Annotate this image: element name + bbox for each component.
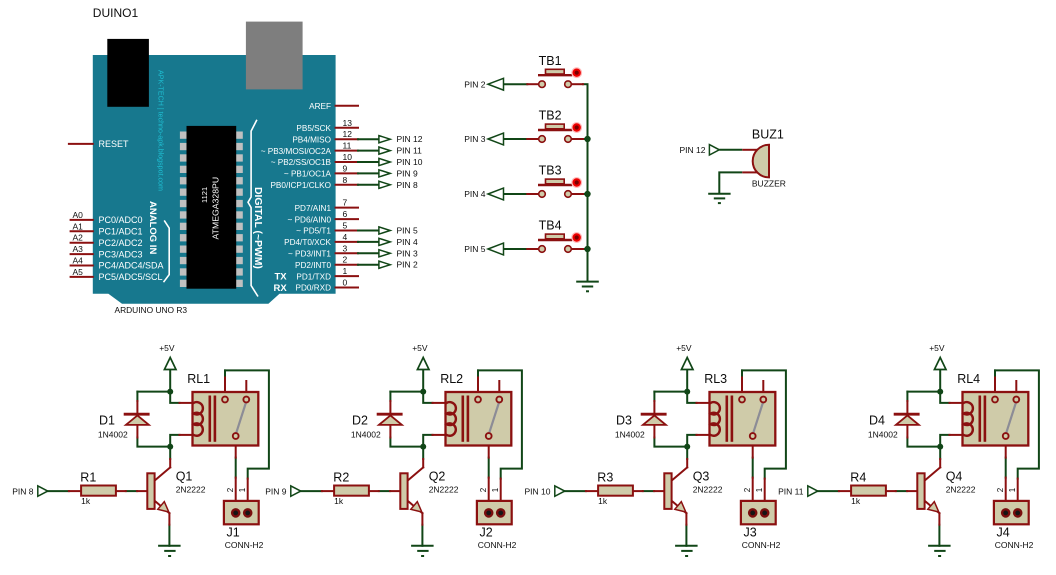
svg-text:+5V: +5V [929,343,945,353]
svg-text:+5V: +5V [676,343,692,353]
svg-text:PIN 12: PIN 12 [680,145,706,155]
svg-text:PC1/ADC1: PC1/ADC1 [99,227,143,237]
svg-text:~ PB3/MOSI/OC2A: ~ PB3/MOSI/OC2A [261,147,332,156]
svg-text:TB1: TB1 [539,54,562,68]
svg-text:Q1: Q1 [176,470,193,484]
svg-text:PC4/ADC4/SDA: PC4/ADC4/SDA [99,261,164,271]
svg-text:ARDUINO UNO R3: ARDUINO UNO R3 [115,305,188,315]
svg-text:RL4: RL4 [957,372,980,386]
svg-text:PIN 5: PIN 5 [397,226,419,236]
svg-text:CONN-H2: CONN-H2 [225,540,264,550]
svg-text:RESET: RESET [99,139,130,149]
svg-text:1k: 1k [851,496,861,506]
svg-text:PD7/AIN1: PD7/AIN1 [295,204,332,213]
svg-text:2N2222: 2N2222 [176,484,206,494]
svg-text:A3: A3 [73,244,84,254]
svg-text:Q2: Q2 [429,470,446,484]
svg-text:0: 0 [343,278,348,288]
svg-text:PC0/ADC0: PC0/ADC0 [99,215,143,225]
svg-text:R3: R3 [597,471,613,485]
svg-text:1: 1 [755,487,764,492]
svg-text:~ PB2/SS/OC1B: ~ PB2/SS/OC1B [271,158,332,167]
svg-text:+5V: +5V [412,343,428,353]
svg-text:PD2/INT0: PD2/INT0 [295,261,331,270]
svg-text:R1: R1 [80,471,96,485]
svg-text:D2: D2 [352,414,368,428]
svg-text:TB4: TB4 [539,219,562,233]
svg-text:PD0/RXD: PD0/RXD [296,284,332,293]
svg-text:1: 1 [343,266,348,276]
svg-text:A4: A4 [73,256,84,266]
svg-text:~ PB1/OC1A: ~ PB1/OC1A [284,170,332,179]
svg-text:PIN 8: PIN 8 [397,180,419,190]
svg-text:PIN 2: PIN 2 [464,79,486,89]
svg-text:BUZZER: BUZZER [752,179,786,189]
svg-text:1: 1 [491,487,500,492]
svg-text:4: 4 [343,232,348,242]
svg-text:D1: D1 [99,414,115,428]
svg-text:~ PD6/AIN0: ~ PD6/AIN0 [288,215,332,224]
svg-text:PIN 3: PIN 3 [397,248,419,258]
svg-text:9: 9 [343,163,348,173]
svg-text:Q4: Q4 [946,470,963,484]
svg-text:PIN 10: PIN 10 [525,486,551,496]
svg-text:1k: 1k [598,496,608,506]
svg-text:PIN 4: PIN 4 [464,189,486,199]
svg-text:A0: A0 [73,210,84,220]
svg-text:2: 2 [343,255,348,265]
svg-text:ANALOG IN: ANALOG IN [147,201,158,254]
svg-text:TB2: TB2 [539,109,562,123]
svg-text:TX: TX [275,271,288,282]
svg-text:1121: 1121 [200,187,209,203]
svg-text:D3: D3 [616,414,632,428]
svg-text:PD1/TXD: PD1/TXD [296,272,331,281]
svg-text:PIN 11: PIN 11 [778,486,804,496]
svg-text:1k: 1k [334,496,344,506]
svg-text:PIN 10: PIN 10 [397,157,423,167]
svg-text:PC3/ADC3: PC3/ADC3 [99,249,143,259]
svg-text:PIN 12: PIN 12 [397,134,423,144]
svg-text:2N2222: 2N2222 [946,484,976,494]
svg-text:CONN-H2: CONN-H2 [742,540,781,550]
svg-text:CONN-H2: CONN-H2 [478,540,517,550]
svg-text:RL3: RL3 [704,372,727,386]
svg-text:7: 7 [343,198,348,208]
svg-text:TB3: TB3 [539,164,562,178]
svg-text:PC2/ADC2: PC2/ADC2 [99,238,143,248]
svg-text:PC5/ADC5/SCL: PC5/ADC5/SCL [99,272,163,282]
svg-text:J2: J2 [480,526,493,540]
svg-text:PIN 11: PIN 11 [397,146,423,156]
svg-text:PB4/MISO: PB4/MISO [292,135,331,144]
svg-text:PIN 9: PIN 9 [397,168,419,178]
svg-text:10: 10 [343,152,353,162]
svg-text:CONN-H2: CONN-H2 [995,540,1034,550]
svg-text:1N4002: 1N4002 [615,429,645,439]
svg-text:R4: R4 [850,471,866,485]
svg-text:J3: J3 [744,526,757,540]
svg-text:R2: R2 [333,471,349,485]
svg-text:~ PD5/T1: ~ PD5/T1 [296,227,331,236]
svg-text:BUZ1: BUZ1 [752,128,784,142]
svg-text:6: 6 [343,209,348,219]
svg-text:PIN 2: PIN 2 [397,260,419,270]
svg-text:Q3: Q3 [693,470,710,484]
svg-text:PIN 4: PIN 4 [397,237,419,247]
svg-text:AREF: AREF [309,102,331,111]
svg-text:3: 3 [343,243,348,253]
svg-text:2: 2 [743,487,752,492]
svg-text:PIN 5: PIN 5 [464,244,486,254]
svg-text:J4: J4 [997,526,1010,540]
svg-text:5: 5 [343,221,348,231]
svg-text:2N2222: 2N2222 [693,484,723,494]
svg-text:RL2: RL2 [440,372,463,386]
svg-text:A5: A5 [73,267,84,277]
svg-text:PIN 9: PIN 9 [265,486,287,496]
svg-text:RL1: RL1 [187,372,210,386]
svg-text:ATMEGA328PU: ATMEGA328PU [211,177,221,240]
svg-text:RX: RX [274,283,288,294]
svg-text:PIN 3: PIN 3 [464,134,486,144]
svg-text:2: 2 [996,487,1005,492]
svg-text:1: 1 [238,487,247,492]
svg-text:12: 12 [343,129,353,139]
svg-text:D4: D4 [869,414,885,428]
svg-text:2N2222: 2N2222 [429,484,459,494]
svg-text:DIGITAL (~PWM): DIGITAL (~PWM) [252,187,263,269]
svg-text:2: 2 [226,487,235,492]
svg-text:PD4/T0/XCK: PD4/T0/XCK [284,238,331,247]
svg-text:8: 8 [343,175,348,185]
svg-text:11: 11 [343,141,352,151]
svg-text:2: 2 [479,487,488,492]
svg-text:1k: 1k [81,496,91,506]
svg-text:1N4002: 1N4002 [868,429,898,439]
svg-text:APK-TECH | techno-apk.blogspot: APK-TECH | techno-apk.blogspot.com [157,70,165,191]
svg-text:1N4002: 1N4002 [351,429,381,439]
svg-text:+5V: +5V [159,343,175,353]
svg-text:A1: A1 [73,221,84,231]
svg-text:1N4002: 1N4002 [98,429,128,439]
svg-text:~ PD3/INT1: ~ PD3/INT1 [288,250,331,259]
svg-text:13: 13 [343,118,353,128]
svg-text:DUINO1: DUINO1 [93,6,139,20]
svg-text:PB5/SCK: PB5/SCK [296,124,331,133]
svg-text:PIN 8: PIN 8 [12,486,34,496]
svg-text:A2: A2 [73,233,84,243]
svg-text:J1: J1 [227,526,240,540]
svg-text:PB0/ICP1/CLKO: PB0/ICP1/CLKO [270,181,331,190]
svg-text:1: 1 [1008,487,1017,492]
